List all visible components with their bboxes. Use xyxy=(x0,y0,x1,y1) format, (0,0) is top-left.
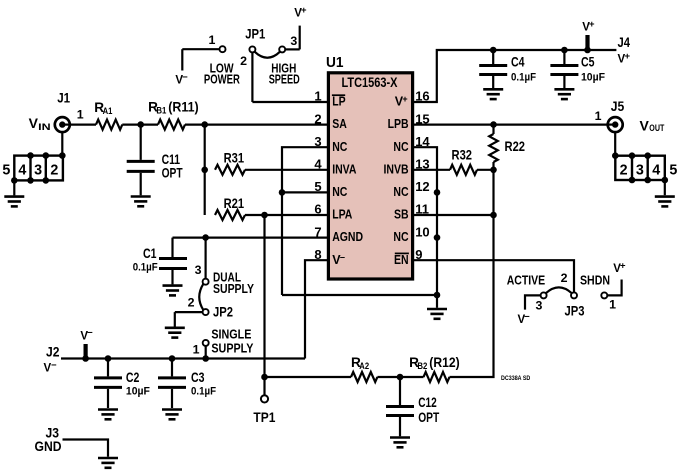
svg-text:C3: C3 xyxy=(191,370,205,385)
J5 shield pad block xyxy=(612,132,677,195)
label DC338A SD xyxy=(501,375,530,382)
svg-text:2: 2 xyxy=(561,271,568,285)
resistor R22 xyxy=(489,125,525,170)
ground J3 xyxy=(98,458,118,468)
wire U1 pin11 SB xyxy=(413,214,494,216)
resistor RA1 xyxy=(94,100,122,130)
ground C5 xyxy=(554,89,574,99)
svg-text:B2: B2 xyxy=(417,361,427,372)
svg-text:SHDN: SHDN xyxy=(580,273,610,288)
svg-text:3: 3 xyxy=(34,163,42,179)
J1 shield pad block xyxy=(2,132,65,196)
wire R21 to U1 pin6 LPA xyxy=(245,214,328,216)
node C11 tap xyxy=(137,121,144,128)
node pin10 NC xyxy=(434,234,441,241)
wire RA2 to RB2 xyxy=(377,376,423,378)
U1 left pin numbers 1-8 xyxy=(314,89,322,262)
svg-text:LPB: LPB xyxy=(388,117,409,131)
svg-text:SUPPLY: SUPPLY xyxy=(213,281,254,296)
svg-text:12: 12 xyxy=(415,179,429,194)
wire V- rail J2 xyxy=(61,357,305,359)
svg-text:−: − xyxy=(524,311,530,322)
svg-text:1: 1 xyxy=(193,343,200,357)
svg-text:NC: NC xyxy=(393,140,408,154)
wire U1 pin9 EN xyxy=(413,260,574,292)
capacitor C3 0.1uF xyxy=(158,359,216,409)
label HIGH SPEED xyxy=(269,61,300,87)
svg-text:3: 3 xyxy=(290,34,297,48)
svg-text:+: + xyxy=(625,51,631,62)
wire LPA to TP1 xyxy=(263,215,265,377)
svg-text:LPA: LPA xyxy=(332,208,352,222)
svg-text:EN: EN xyxy=(394,253,409,267)
svg-text:R22: R22 xyxy=(505,139,526,154)
svg-text:A2: A2 xyxy=(359,361,369,372)
svg-text:J4: J4 xyxy=(618,35,631,50)
wire U1 pin15 LPB to J5 xyxy=(413,123,608,125)
wire RB1 to U1 pin2 SA xyxy=(185,123,328,125)
label SINGLE SUPPLY xyxy=(211,327,253,356)
U1 left pin labels LP SA NC INVA NC LPA AGND V- xyxy=(332,95,363,267)
label V+ JP3 xyxy=(613,260,626,275)
label V- JP3 xyxy=(518,311,531,326)
svg-text:NC: NC xyxy=(332,140,347,154)
svg-text:0.1µF: 0.1µF xyxy=(133,261,158,273)
label V- power xyxy=(80,328,93,343)
jumper JP3 xyxy=(525,271,622,319)
svg-text:INVB: INVB xyxy=(384,162,409,176)
label V- JP1 xyxy=(175,72,188,87)
svg-text:4: 4 xyxy=(18,163,26,179)
capacitor C1 0.1uF xyxy=(133,238,187,285)
wire TP1 to RA2 xyxy=(265,376,352,378)
svg-text:OPT: OPT xyxy=(162,166,184,181)
svg-text:1: 1 xyxy=(595,109,602,123)
label V+ JP1 xyxy=(294,5,307,20)
svg-text:INVA: INVA xyxy=(332,162,356,176)
node C12 tap xyxy=(397,374,404,381)
label SHDN xyxy=(580,273,610,288)
svg-text:0.1µF: 0.1µF xyxy=(191,386,216,398)
ground C4 xyxy=(483,89,503,99)
svg-text:V: V xyxy=(640,117,650,133)
jumper JP2 xyxy=(175,238,234,327)
svg-text:3: 3 xyxy=(536,299,543,313)
jumper JP1 xyxy=(182,26,328,102)
node C3 xyxy=(169,355,176,362)
svg-text:R32: R32 xyxy=(452,147,473,162)
svg-text:A1: A1 xyxy=(103,106,113,117)
svg-text:0.1µF: 0.1µF xyxy=(511,72,536,84)
ground C1 xyxy=(163,286,183,296)
svg-text:+: + xyxy=(402,94,407,104)
connector J5 coax jack xyxy=(595,99,625,132)
node LPA/TP1 xyxy=(261,212,268,219)
svg-text:SPEED: SPEED xyxy=(269,72,300,87)
label J2 V- xyxy=(44,345,60,375)
svg-text:3: 3 xyxy=(195,263,202,277)
node R22 top xyxy=(490,121,497,128)
svg-text:B1: B1 xyxy=(156,106,167,117)
U1 right pin labels V+ LPB NC INVB NC SB NC EN xyxy=(384,94,409,267)
svg-text:LP: LP xyxy=(332,95,345,109)
node pin5 NC xyxy=(279,189,286,196)
connector J1 coax jack xyxy=(55,91,84,132)
label ACTIVE xyxy=(507,273,546,288)
svg-text:IN: IN xyxy=(38,122,51,132)
svg-text:1: 1 xyxy=(609,298,616,312)
node pin12 NC xyxy=(434,189,441,196)
svg-text:(R12): (R12) xyxy=(429,355,459,370)
wire U1 pin8 V- xyxy=(305,260,328,358)
svg-text:+: + xyxy=(620,260,626,271)
capacitor C4 0.1uF xyxy=(479,50,536,88)
svg-text:NC: NC xyxy=(393,185,408,199)
svg-text:C2: C2 xyxy=(126,370,140,385)
svg-text:GND: GND xyxy=(35,439,62,454)
svg-text:4: 4 xyxy=(652,162,660,178)
node R31 tap xyxy=(201,167,208,174)
svg-text:C4: C4 xyxy=(511,54,525,69)
node C5 xyxy=(561,47,568,54)
svg-text:J1: J1 xyxy=(57,91,70,106)
label V+ power xyxy=(582,19,595,34)
capacitor C2 10uF xyxy=(94,359,150,409)
svg-text:OUT: OUT xyxy=(649,123,664,133)
svg-text:(R11): (R11) xyxy=(168,99,198,114)
svg-text:U1: U1 xyxy=(326,55,344,71)
ground J1 xyxy=(4,197,24,207)
svg-text:OPT: OPT xyxy=(418,410,440,425)
resistor RB1 (R11) xyxy=(148,99,199,129)
ground C11 xyxy=(131,197,151,207)
svg-text:10µF: 10µF xyxy=(126,386,150,398)
connector J3 GND xyxy=(35,426,109,457)
wire RB2 up to R22 net xyxy=(450,170,494,377)
ground NC rail xyxy=(427,295,447,319)
svg-text:10µF: 10µF xyxy=(581,72,605,84)
svg-text:2: 2 xyxy=(620,162,628,178)
resistor R32 xyxy=(450,147,477,175)
node NC rail ground xyxy=(434,292,441,299)
svg-text:JP2: JP2 xyxy=(213,305,233,320)
wire U1 pin5 NC xyxy=(282,191,328,193)
svg-text:+: + xyxy=(301,5,307,16)
svg-text:J5: J5 xyxy=(611,99,625,114)
wire U1 pin13 INVB to R32 xyxy=(413,169,450,171)
ground C3 xyxy=(162,410,182,420)
node JP2 pin1 xyxy=(202,355,209,362)
node SB xyxy=(490,212,497,219)
svg-text:2: 2 xyxy=(240,54,247,68)
svg-text:C5: C5 xyxy=(581,54,595,69)
ground C2 xyxy=(98,410,118,420)
svg-text:5: 5 xyxy=(2,163,10,179)
svg-text:10: 10 xyxy=(415,224,429,239)
resistor R31 xyxy=(215,151,245,175)
svg-text:NC: NC xyxy=(332,185,347,199)
capacitor C5 10uF xyxy=(550,50,605,88)
svg-text:2: 2 xyxy=(50,163,58,179)
ground JP2 xyxy=(165,328,185,338)
node SA feedback tap xyxy=(201,121,208,128)
svg-text:3: 3 xyxy=(636,162,644,178)
wire U1 pin3 NC xyxy=(282,147,328,295)
svg-text:SB: SB xyxy=(394,208,409,222)
svg-text:1: 1 xyxy=(208,33,215,47)
svg-text:−: − xyxy=(51,360,57,371)
wire R32 to node xyxy=(477,169,494,171)
svg-text:POWER: POWER xyxy=(204,72,241,87)
svg-text:R31: R31 xyxy=(224,151,245,166)
label VOUT xyxy=(640,117,665,133)
label VIN xyxy=(29,115,51,132)
node C4 xyxy=(490,47,497,54)
svg-text:AGND: AGND xyxy=(332,230,363,244)
capacitor C11 OPT xyxy=(127,125,183,196)
test point TP1 xyxy=(253,377,275,425)
svg-text:J2: J2 xyxy=(46,345,60,360)
svg-text:TP1: TP1 xyxy=(253,410,275,425)
svg-text:5: 5 xyxy=(669,162,677,178)
connector J4 V+ xyxy=(618,35,631,66)
capacitor C12 OPT xyxy=(386,377,440,436)
power V- stub xyxy=(82,344,89,362)
wire U1 pin7 AGND rail xyxy=(173,237,329,239)
svg-text:−: − xyxy=(87,328,93,339)
op-amp/filter IC U1 LTC1563-X body xyxy=(326,55,413,279)
resistor RA2 xyxy=(351,355,377,382)
svg-text:C1: C1 xyxy=(143,246,157,261)
node TP1 xyxy=(261,374,268,381)
power V+ stub xyxy=(584,35,591,53)
svg-text:SUPPLY: SUPPLY xyxy=(211,340,253,355)
svg-text:DC338A SD: DC338A SD xyxy=(501,375,530,382)
svg-text:+: + xyxy=(589,19,595,30)
node R22/R32 xyxy=(490,167,497,174)
svg-text:JP1: JP1 xyxy=(245,27,265,42)
U1 right pin numbers 16-9 xyxy=(415,89,430,262)
svg-text:NC: NC xyxy=(393,230,408,244)
svg-text:R21: R21 xyxy=(224,196,245,211)
svg-text:−: − xyxy=(340,252,345,262)
svg-text:ACTIVE: ACTIVE xyxy=(507,273,546,288)
wire U1 pin16 V+ to rail xyxy=(413,50,617,102)
label LOW POWER xyxy=(204,61,241,87)
svg-text:SA: SA xyxy=(332,117,347,131)
svg-text:−: − xyxy=(182,72,188,83)
svg-text:LTC1563-X: LTC1563-X xyxy=(342,75,398,90)
wire J1 to RA1 xyxy=(70,123,96,125)
node C2 xyxy=(105,355,112,362)
resistor R21 xyxy=(215,196,245,220)
node JP2 tap xyxy=(202,234,209,241)
svg-text:C12: C12 xyxy=(418,395,437,410)
svg-text:2: 2 xyxy=(188,296,195,310)
wire U1 pin14 NC xyxy=(413,147,437,295)
jumper pin1 SINGLE SUPPLY xyxy=(193,340,209,359)
wire RA1 to RB1 with node xyxy=(122,123,158,125)
wire NC ground rail xyxy=(282,294,437,296)
ground C12 xyxy=(390,438,410,448)
ground J5 xyxy=(655,197,675,207)
svg-text:V: V xyxy=(29,115,39,131)
wire R31 to U1 pin4 INVA xyxy=(245,169,328,171)
resistor RB2 (R12) xyxy=(409,355,460,382)
svg-text:JP3: JP3 xyxy=(565,304,585,319)
svg-text:1: 1 xyxy=(77,108,84,122)
wire SA node down xyxy=(204,125,206,215)
label DUAL SUPPLY xyxy=(213,270,254,297)
